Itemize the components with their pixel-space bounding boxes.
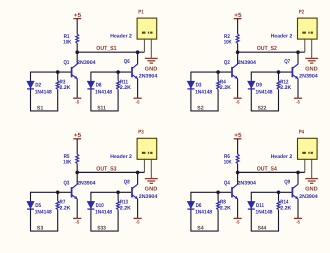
svg-text:+5: +5 (74, 132, 82, 139)
svg-text:10K: 10K (63, 160, 71, 166)
svg-text:2N3904: 2N3904 (139, 74, 158, 80)
svg-text:-5: -5 (236, 220, 240, 225)
power port -5 (Q7 emitter) (294, 98, 302, 104)
header P1 pin 1 (143, 39, 145, 52)
wire net OUT_S1 (77, 51, 144, 53)
svg-text:-5: -5 (296, 99, 300, 104)
power port -5 (Q8 emitter) (134, 218, 142, 224)
svg-text:1N4148: 1N4148 (95, 89, 112, 95)
svg-text:GND: GND (305, 66, 318, 72)
svg-text:1N4148: 1N4148 (195, 210, 212, 216)
power port -5 (Q3 emitter) (73, 218, 81, 224)
label D2 value (35, 83, 52, 96)
transistor Q7 2N3904 (292, 52, 298, 98)
svg-text:-5: -5 (136, 220, 140, 225)
label D5 value (35, 203, 52, 216)
svg-text:Q3: Q3 (64, 180, 70, 186)
junction node OUT_S1 right (136, 50, 140, 54)
svg-text:1N4148: 1N4148 (195, 89, 212, 95)
svg-text:-5: -5 (296, 220, 300, 225)
power port -5 (Q9 emitter) (294, 218, 302, 224)
header P3 Header 2 body (137, 138, 157, 159)
wire: box loop of S2 (190, 72, 231, 111)
header P2 pin 1 (304, 39, 306, 52)
power port GND (P2) (305, 58, 318, 72)
label R1 value (63, 34, 71, 46)
diode D3 1N4148 (187, 81, 194, 89)
junction node S44/base (277, 191, 281, 195)
svg-text:S2: S2 (197, 105, 204, 111)
power port +5 (R2) (234, 12, 242, 34)
label R11 value (120, 80, 131, 92)
svg-text:2.2K: 2.2K (280, 205, 291, 211)
header P1 Header 2 body (137, 18, 157, 39)
junction node S3/base (56, 191, 60, 195)
svg-text:P3: P3 (138, 130, 143, 136)
svg-text:Header 2: Header 2 (110, 154, 132, 160)
svg-text:2.2K: 2.2K (60, 205, 71, 211)
diode D8 1N4148 (87, 81, 94, 89)
power port -5 (Q1 emitter) (73, 98, 81, 104)
junction node S2/base (216, 70, 220, 74)
svg-text:OUT_S2: OUT_S2 (257, 45, 278, 52)
label D9 value (256, 83, 273, 96)
transistor Q8 2N3904 (132, 172, 138, 218)
svg-text:Q1: Q1 (64, 60, 70, 66)
wire: box loop of S4 (190, 192, 231, 231)
header P2 pin marks 1,2 (302, 32, 313, 34)
header P4 pin 2 (311, 159, 313, 178)
svg-text:2.2K: 2.2K (220, 85, 231, 91)
resistor R7 2.2K (56, 201, 59, 210)
transistor Q6 2N3904 (132, 52, 138, 98)
transistor Q3 2N3904 (72, 172, 78, 218)
junction node OUT_S4 right (296, 171, 300, 175)
header P1 pin marks 1,2 (142, 32, 153, 34)
diode D6 1N4148 (187, 202, 194, 210)
header P4 Header 2 body (298, 138, 318, 159)
transistor Q9 2N3904 (292, 172, 298, 218)
label R14 value (280, 200, 291, 212)
label R2 value (224, 34, 232, 46)
label R4 value (220, 80, 231, 92)
svg-text:1N4148: 1N4148 (256, 89, 273, 95)
svg-text:2N3904: 2N3904 (139, 194, 158, 200)
diode D9 1N4148 (248, 81, 255, 89)
label D3 value (195, 83, 212, 96)
header P3 pin marks 1,2 (142, 152, 153, 154)
header P3 pin 2 (150, 159, 152, 178)
resistor R5 10K (76, 154, 79, 172)
header P2 Header 2 body (298, 18, 318, 39)
resistor R1 10K (76, 34, 79, 52)
junction node OUT_S4 left (236, 171, 240, 175)
transistor Q2 2N3904 (232, 52, 238, 98)
resistor R3 2.2K (56, 81, 59, 90)
svg-text:S1: S1 (37, 105, 44, 111)
label R8 value (220, 200, 231, 212)
wire: box loop of S1 (30, 72, 71, 111)
svg-text:GND: GND (145, 66, 158, 72)
svg-text:Q8: Q8 (124, 179, 130, 185)
svg-text:P2: P2 (299, 9, 304, 15)
svg-text:D9: D9 (256, 83, 262, 89)
svg-text:Q6: Q6 (124, 59, 130, 65)
wire: box loop of S11 (90, 72, 131, 111)
junction node OUT_S1 left (75, 50, 79, 54)
junction node OUT_S2 left (236, 50, 240, 54)
svg-text:1N4148: 1N4148 (95, 210, 112, 216)
svg-text:D8: D8 (96, 83, 102, 89)
svg-text:P4: P4 (299, 130, 305, 136)
svg-text:2N3904: 2N3904 (238, 60, 257, 66)
svg-text:1N4148: 1N4148 (256, 210, 273, 216)
svg-text:10K: 10K (224, 160, 232, 166)
svg-text:2.2K: 2.2K (280, 85, 291, 91)
diode D11 1N4148 (248, 202, 255, 210)
svg-text:-5: -5 (75, 99, 79, 104)
resistor R12 2.2K (277, 81, 280, 90)
svg-text:Q4: Q4 (224, 180, 231, 186)
label D10 value (95, 203, 112, 216)
svg-text:S22: S22 (258, 105, 267, 111)
svg-text:S44: S44 (258, 226, 267, 232)
junction node S22/base (277, 70, 281, 74)
resistor R8 2.2K (217, 201, 220, 210)
svg-text:Header 2: Header 2 (110, 34, 132, 40)
label R13 value (120, 200, 131, 212)
svg-text:Q7: Q7 (284, 59, 290, 65)
svg-text:D11: D11 (256, 203, 264, 209)
svg-text:2N3904: 2N3904 (77, 180, 96, 186)
diode D5 1N4148 (27, 202, 34, 210)
diode D2 1N4148 (27, 81, 34, 89)
svg-text:2N3904: 2N3904 (299, 74, 318, 80)
label R6 value (224, 154, 232, 166)
header P3 pin 1 (143, 159, 145, 172)
svg-text:Header 2: Header 2 (271, 154, 293, 160)
svg-text:-5: -5 (75, 220, 79, 225)
svg-text:S4: S4 (197, 226, 204, 232)
power port +5 (R1) (73, 12, 81, 34)
svg-text:D5: D5 (35, 203, 41, 209)
power port -5 (Q6 emitter) (134, 98, 142, 104)
diode D10 1N4148 (87, 202, 94, 210)
header P4 pin marks 1,2 (302, 152, 313, 154)
junction node S33/base (116, 191, 120, 195)
svg-text:Q2: Q2 (224, 60, 230, 66)
wire net OUT_S2 (238, 51, 305, 53)
svg-text:GND: GND (145, 187, 158, 193)
svg-text:S3: S3 (37, 226, 44, 232)
power port -5 (Q4 emitter) (234, 218, 242, 224)
resistor R4 2.2K (217, 81, 220, 90)
svg-text:2N3904: 2N3904 (299, 194, 318, 200)
junction node OUT_S3 left (75, 171, 79, 175)
svg-text:Header 2: Header 2 (271, 34, 293, 40)
label R7 value (60, 200, 71, 212)
svg-text:2.2K: 2.2K (60, 85, 71, 91)
label R12 value (280, 80, 291, 92)
svg-text:OUT_S1: OUT_S1 (96, 45, 117, 52)
svg-text:1N4148: 1N4148 (35, 89, 52, 95)
header P4 pin 1 (304, 159, 306, 172)
power port GND (P1) (145, 58, 158, 72)
junction node OUT_S2 right (296, 50, 300, 54)
resistor R13 2.2K (117, 201, 120, 210)
svg-text:2N3904: 2N3904 (77, 60, 96, 66)
wire: box loop of S33 (90, 192, 131, 231)
transistor Q1 2N3904 (72, 52, 78, 98)
svg-text:D2: D2 (35, 83, 41, 89)
resistor R11 2.2K (117, 81, 120, 90)
header P2 pin 2 (311, 39, 313, 58)
wire: box loop of S3 (30, 192, 71, 231)
power port GND (P4) (305, 179, 318, 193)
power port -5 (Q2 emitter) (234, 98, 242, 104)
label D6 value (195, 203, 212, 216)
resistor R14 2.2K (277, 201, 280, 210)
power port GND (P3) (145, 179, 158, 193)
svg-text:2N3904: 2N3904 (238, 180, 257, 186)
junction node S11/base (116, 70, 120, 74)
junction node S4/base (216, 191, 220, 195)
svg-text:10K: 10K (224, 39, 232, 45)
svg-text:OUT_S4: OUT_S4 (257, 165, 278, 172)
svg-text:OUT_S3: OUT_S3 (96, 165, 117, 172)
svg-text:2.2K: 2.2K (120, 205, 131, 211)
label R3 value (60, 80, 71, 92)
svg-text:GND: GND (305, 187, 318, 193)
svg-text:2.2K: 2.2K (120, 85, 131, 91)
label R5 value (63, 154, 71, 166)
svg-text:Q9: Q9 (284, 179, 290, 185)
svg-text:-5: -5 (136, 99, 140, 104)
svg-text:2.2K: 2.2K (220, 205, 231, 211)
svg-text:D6: D6 (196, 203, 202, 209)
svg-text:P1: P1 (138, 9, 143, 15)
svg-text:-5: -5 (236, 99, 240, 104)
power port +5 (R6) (234, 132, 242, 154)
svg-text:+5: +5 (234, 132, 242, 139)
svg-text:1N4148: 1N4148 (35, 210, 52, 216)
svg-text:S33: S33 (97, 226, 106, 232)
wire net OUT_S3 (77, 171, 144, 173)
power port +5 (R5) (73, 132, 81, 154)
svg-text:D10: D10 (96, 203, 104, 209)
transistor Q4 2N3904 (232, 172, 238, 218)
junction node S1/base (56, 70, 60, 74)
label D11 value (256, 203, 273, 216)
wire net OUT_S4 (238, 171, 305, 173)
wire: box loop of S44 (251, 192, 292, 231)
svg-text:10K: 10K (63, 39, 71, 45)
header P1 pin 2 (150, 39, 152, 58)
svg-text:S11: S11 (97, 105, 106, 111)
wire: box loop of S22 (251, 72, 292, 111)
resistor R2 10K (236, 34, 239, 52)
svg-text:D3: D3 (196, 83, 202, 89)
label D8 value (95, 83, 112, 96)
resistor R6 10K (236, 154, 239, 172)
junction node OUT_S3 right (136, 171, 140, 175)
